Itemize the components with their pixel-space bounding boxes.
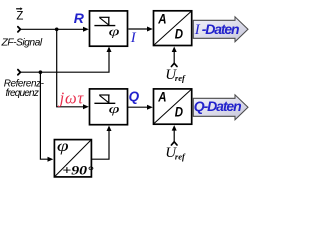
label Uref 1 xyxy=(165,67,186,83)
svg-text:frequenz: frequenz xyxy=(6,88,39,99)
svg-text:ref: ref xyxy=(175,151,186,161)
ADC box 2 (A/D converter Q) xyxy=(154,89,192,124)
wire ZF branch down to Q mixer xyxy=(57,29,83,107)
sawtooth symbol Q mixer xyxy=(94,95,115,103)
svg-text:-Daten: -Daten xyxy=(202,21,239,37)
wire reference branch to phase shifter xyxy=(40,72,48,159)
phase shifter box +90 xyxy=(54,140,91,177)
svg-text:Q-Daten: Q-Daten xyxy=(194,98,241,114)
label Z vector (complex IF signal) xyxy=(16,7,23,22)
label I-Daten xyxy=(194,21,239,38)
wire ZF main xyxy=(21,28,84,30)
svg-text:φ: φ xyxy=(109,24,120,38)
diagonal ADC2 xyxy=(154,90,191,124)
svg-text:+90°: +90° xyxy=(62,164,93,178)
Uref input ADC1 xyxy=(171,47,177,67)
wire Q mixer to ADC2 xyxy=(128,106,149,108)
wire I mixer to ADC1 xyxy=(129,28,149,30)
sawtooth symbol I mixer xyxy=(94,17,115,25)
svg-text:A: A xyxy=(157,12,166,27)
label Uref 2 xyxy=(165,145,186,161)
wire reference main to I mixer bottom xyxy=(21,51,109,72)
svg-text:R: R xyxy=(74,10,85,26)
block arrow I-Daten xyxy=(193,17,248,42)
mixer box I (phase detector) xyxy=(90,11,128,46)
node reference junction xyxy=(39,70,43,74)
svg-text:A: A xyxy=(157,90,166,105)
svg-text:ZF-Signal: ZF-Signal xyxy=(1,38,43,49)
input connector reference xyxy=(18,70,21,75)
block arrow Q-Daten xyxy=(193,95,248,120)
mixer box Q (phase detector) xyxy=(90,89,128,125)
svg-text:D: D xyxy=(175,27,183,42)
Uref input ADC2 xyxy=(171,125,177,145)
diagonal ADC1 xyxy=(154,12,191,45)
wire phase shifter to Q mixer bottom xyxy=(91,130,109,159)
input connector ZF xyxy=(18,27,21,32)
svg-text:D: D xyxy=(175,105,183,120)
diagonal in phase shifter xyxy=(55,141,90,177)
svg-text:jωτ: jωτ xyxy=(58,88,85,107)
node ZF junction xyxy=(55,28,59,32)
svg-text:Q: Q xyxy=(129,89,140,104)
svg-text:ref: ref xyxy=(175,73,186,83)
svg-text:φ: φ xyxy=(57,137,69,155)
svg-text:Z: Z xyxy=(16,11,23,23)
svg-text:φ: φ xyxy=(109,102,120,116)
ADC box 1 (A/D converter I) xyxy=(154,11,192,46)
svg-text:I: I xyxy=(194,22,201,38)
svg-text:I: I xyxy=(130,30,137,46)
